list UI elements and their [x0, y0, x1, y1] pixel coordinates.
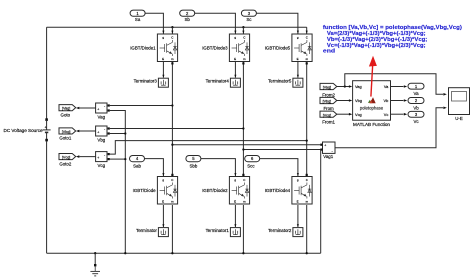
svg-text:Terminator: Terminator [136, 228, 157, 233]
voltage source DC Voltage Source [43, 118, 51, 141]
label poletophase (block) [360, 105, 384, 110]
svg-text:U-E: U-E [455, 116, 463, 121]
input port 4 Sab [130, 156, 145, 162]
wire Sbb to IGBT/Diode2 gate [201, 159, 237, 177]
voltmeter Vag1 [320, 142, 335, 153]
node top bus to IGBT/Diode3 C [242, 26, 244, 34]
wire Scc to IGBT/Diode4 gate [260, 159, 299, 177]
wire phase A node [171, 62, 173, 177]
transistor IGBT/Diode5 [292, 34, 312, 62]
svg-text:Terminator2: Terminator2 [268, 228, 292, 233]
svg-text:Goto: Goto [61, 112, 71, 117]
transistor IGBT/Diode2 [229, 177, 249, 205]
svg-text:poletophase: poletophase [360, 105, 384, 110]
label From [323, 106, 334, 111]
wire IGBT/Diode2 E to ground bus [242, 205, 244, 254]
label Goto2 [59, 161, 72, 166]
block poletophase MATLAB Function [353, 81, 391, 121]
terminator Terminator3 [158, 78, 168, 87]
wire phase A to Vag1+ [171, 144, 320, 146]
wire IGBT/Diode E to ground bus [171, 205, 173, 254]
svg-text:Va: Va [413, 91, 419, 96]
label From1 [322, 120, 335, 125]
node top bus to IGBT/Diode1 C [171, 26, 173, 34]
label function code annotation [323, 25, 462, 54]
scope U-E [449, 88, 470, 115]
label Vag [98, 115, 106, 120]
annotation red arrow [369, 56, 377, 97]
wire Sab to IGBT/Diode gate [145, 159, 165, 177]
svg-text:IGBT/Diode2: IGBT/Diode2 [202, 188, 228, 193]
wire Sc to IGBT/Diode5 gate [256, 13, 299, 34]
wire bottom ground bus [47, 252, 321, 254]
label Terminator4 [206, 79, 230, 84]
svg-text:Terminator1: Terminator1 [206, 228, 230, 233]
label Vbg [97, 138, 105, 143]
svg-text:DC Voltage Source: DC Voltage Source [4, 128, 44, 133]
label Terminator [136, 228, 157, 233]
label IGBT/Diode5 [265, 45, 291, 50]
terminator Terminator2 [293, 228, 303, 237]
label IGBT/Diode2 [202, 188, 228, 193]
svg-text:Vcg: Vcg [98, 163, 106, 168]
label IGBT/Diode4 [265, 188, 291, 193]
label Vcg [98, 163, 106, 168]
terminator Terminator [158, 228, 168, 237]
label MATLAB Function [353, 122, 390, 127]
label IGBT/Diode1 [130, 45, 156, 50]
svg-text:[Vcg]: [Vcg] [323, 113, 331, 117]
wire Vc to output 3 [391, 113, 408, 116]
label Vb [413, 106, 419, 111]
svg-text:Vb: Vb [413, 106, 419, 111]
wire IGBT m to Terminator4 [234, 62, 236, 78]
svg-text:+: + [45, 125, 47, 129]
label Terminator3 [134, 79, 158, 84]
wire Vcg+ to phase C [110, 139, 308, 154]
input port 5 Sbb [186, 156, 201, 162]
svg-text:[Vcg]: [Vcg] [62, 156, 70, 160]
svg-text:Vag1: Vag1 [323, 154, 333, 159]
transistor IGBT/Diode1 [157, 34, 177, 62]
label Sc [246, 17, 252, 22]
label Goto1 [59, 136, 72, 141]
wire Sa to IGBT/Diode1 gate [145, 13, 164, 34]
label Sab [133, 163, 141, 168]
voltmeter Vbg [96, 126, 110, 136]
wire phase B to Vag1- [242, 148, 320, 150]
wire Vag v to Goto [76, 107, 96, 110]
label Vag1 [323, 154, 333, 159]
svg-text:[Vbg]: [Vbg] [323, 100, 332, 104]
wire Vbg+ to phase B [110, 127, 245, 129]
logo MATLAB membrane [368, 97, 376, 103]
input port 3 Sc [241, 10, 256, 16]
wire IGBT m to Terminator1 [234, 205, 236, 227]
svg-text:From1: From1 [322, 120, 335, 125]
wire IGBT m to Terminator [162, 205, 164, 227]
label Sbb [189, 163, 197, 168]
svg-text:IGBT/Diode: IGBT/Diode [133, 188, 156, 193]
wire From2 to poletophase Vag [337, 85, 353, 88]
wire top bus corner to IGBT/Diode5 C [306, 27, 308, 34]
wire Va to output 1 [391, 85, 408, 88]
voltmeter Vcg [96, 152, 110, 162]
from tag [Vag] [320, 83, 337, 89]
label Vc [413, 119, 419, 124]
wire Vbg- to return [110, 132, 127, 134]
terminator Terminator4 [230, 78, 240, 87]
terminator Terminator1 [230, 228, 240, 237]
svg-text:Sb: Sb [185, 17, 191, 22]
from tag [Vcg] [320, 111, 337, 117]
label DC Voltage Source [4, 128, 44, 133]
transistor IGBT/Diode4 [292, 177, 312, 205]
svg-text:Vc: Vc [413, 119, 419, 124]
label IGBT/Diode3 [202, 45, 228, 50]
label Sa [135, 17, 141, 22]
label Sb [185, 17, 191, 22]
wire Vag1 return corner [320, 150, 322, 254]
from tag [Vbg] [320, 97, 337, 103]
ground [90, 252, 100, 276]
wire Vb to output 2 [391, 99, 408, 102]
svg-text:Sab: Sab [133, 163, 141, 168]
label Terminator5 [268, 79, 292, 84]
svg-text:Scc: Scc [247, 163, 255, 168]
svg-text:IGBT/Diode5: IGBT/Diode5 [265, 45, 291, 50]
svg-text:IGBT/Diode1: IGBT/Diode1 [130, 45, 156, 50]
svg-text:Vag: Vag [355, 84, 362, 89]
input port 2 Sb [180, 10, 195, 16]
svg-text:From: From [323, 106, 334, 111]
goto Vcg [59, 154, 76, 160]
svg-text:[Vag]: [Vag] [62, 107, 70, 111]
svg-text:Sa: Sa [135, 17, 141, 22]
svg-text:Terminator4: Terminator4 [206, 79, 230, 84]
wire Vcg v to Goto2 [76, 155, 96, 158]
svg-text:Vbg: Vbg [97, 138, 105, 143]
terminator Terminator5 [293, 78, 303, 87]
label Va [413, 91, 419, 96]
wire IGBT m to Terminator3 [162, 62, 164, 78]
svg-text:Vag: Vag [98, 115, 106, 120]
output port 2 Vb [408, 98, 424, 104]
wire Vag+ to phase A [110, 104, 174, 106]
svg-text:Vc=(-1/3)*Vag+(-1/3)*Vbg+(2/3): Vc=(-1/3)*Vag+(-1/3)*Vbg+(2/3)*Vcg; [327, 43, 426, 49]
wire Vag branch to Scope input 1 [345, 74, 447, 96]
svg-text:Terminator3: Terminator3 [134, 79, 158, 84]
svg-text:Vcg: Vcg [355, 112, 362, 117]
wire phase C node [306, 62, 308, 177]
wire top DC+ bus [47, 26, 307, 28]
label IGBT/Diode [133, 188, 156, 193]
svg-text:Terminator5: Terminator5 [268, 79, 292, 84]
wire Vbg v to Goto1 [76, 130, 96, 133]
goto Vag [59, 105, 76, 111]
wire Sb to IGBT/Diode3 gate [195, 13, 237, 34]
svg-text:[Vag]: [Vag] [323, 86, 331, 90]
input port 1 Sa [130, 10, 145, 16]
wire From to poletophase Vbg [337, 99, 353, 102]
label From2 [322, 92, 335, 97]
label Terminator2 [268, 228, 292, 233]
transistor IGBT/Diode [157, 177, 177, 205]
wire phase B node [242, 62, 244, 177]
svg-text:Sc: Sc [246, 17, 252, 22]
svg-text:end: end [323, 49, 336, 55]
wire IGBT m to Terminator5 [297, 62, 299, 78]
label Scc [247, 163, 255, 168]
svg-text:MATLAB Function: MATLAB Function [353, 122, 390, 127]
output port 1 Va [408, 83, 424, 89]
svg-text:+: + [324, 144, 326, 148]
wire Vag- to return [110, 111, 127, 255]
wire left DC bus vertical [46, 27, 48, 253]
svg-text:From2: From2 [322, 92, 335, 97]
svg-text:[Vbg]: [Vbg] [62, 130, 71, 134]
label Goto [61, 112, 71, 117]
label Terminator1 [206, 228, 230, 233]
output port 3 Vc [408, 111, 424, 117]
wire From1 to poletophase Vcg [337, 113, 353, 116]
svg-text:Vbg: Vbg [355, 98, 362, 103]
voltmeter Vag [96, 103, 110, 113]
svg-text:IGBT/Diode3: IGBT/Diode3 [202, 45, 228, 50]
input port 6 Scc [245, 156, 260, 162]
wire Vcg- to return [110, 158, 127, 160]
svg-text:IGBT/Diode4: IGBT/Diode4 [265, 188, 291, 193]
label U-E [455, 116, 463, 121]
svg-text:Sbb: Sbb [189, 163, 197, 168]
goto Vbg [59, 128, 76, 134]
wire IGBT/Diode4 E to ground bus [306, 205, 308, 254]
wire Vag1 v to Scope input 2 [335, 107, 447, 148]
transistor IGBT/Diode3 [229, 34, 249, 62]
svg-text:Vb: Vb [384, 98, 389, 103]
svg-text:Goto2: Goto2 [59, 161, 72, 166]
svg-text:Goto1: Goto1 [59, 136, 72, 141]
wire IGBT m to Terminator2 [297, 205, 299, 227]
svg-text:Vc: Vc [384, 112, 389, 117]
